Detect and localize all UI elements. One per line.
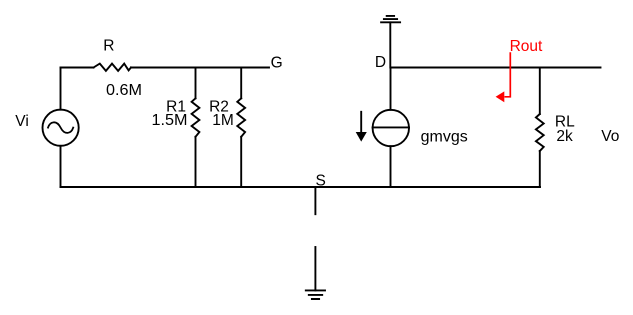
wire R1 top lead xyxy=(195,68,197,99)
wire R2 top lead xyxy=(240,68,242,99)
Rout probe arrowhead (red) xyxy=(496,91,505,102)
wire node S stub xyxy=(314,187,316,214)
wire top-left: source Vi top to node G xyxy=(61,67,270,69)
wire current source bottom lead xyxy=(390,146,392,187)
wire RL top lead xyxy=(539,68,541,115)
wire bottom ground lead xyxy=(314,247,316,290)
current source gmvgs circle xyxy=(373,110,409,146)
sine wave inside Vi xyxy=(48,122,73,133)
resistor R2 zigzag xyxy=(237,98,245,137)
wire Vi bottom lead xyxy=(60,146,62,187)
wire R1 bottom lead xyxy=(195,137,197,187)
svg-text:D: D xyxy=(375,54,386,71)
wire Vi top lead xyxy=(60,68,62,110)
svg-text:Rout: Rout xyxy=(510,38,543,55)
svg-text:G: G xyxy=(271,54,283,71)
ground top (inverted) lead xyxy=(389,22,391,67)
svg-text:1M: 1M xyxy=(212,112,234,129)
wire top-right: node D to right end xyxy=(391,67,601,69)
svg-text:Vo: Vo xyxy=(601,128,619,145)
wire RL bottom lead xyxy=(539,151,541,187)
resistor RL zigzag xyxy=(536,114,544,151)
Rout probe arrow (red) xyxy=(505,52,511,97)
voltage source Vi circle xyxy=(43,110,79,146)
svg-text:gmvgs: gmvgs xyxy=(421,129,468,146)
svg-text:0.6M: 0.6M xyxy=(106,82,142,99)
ground bottom bars xyxy=(306,290,325,299)
svg-text:2k: 2k xyxy=(556,128,573,145)
svg-text:Vi: Vi xyxy=(15,113,29,130)
current direction arrow shaft xyxy=(360,112,362,133)
resistor R zigzag xyxy=(94,64,132,71)
resistor R1 zigzag xyxy=(192,98,200,137)
current direction arrowhead xyxy=(356,132,367,142)
current source chord line xyxy=(373,126,409,128)
svg-text:R: R xyxy=(103,38,114,55)
wire R2 bottom lead xyxy=(240,137,242,187)
wire current source top lead xyxy=(390,68,392,110)
wire bottom rail xyxy=(61,186,541,188)
svg-text:1.5M: 1.5M xyxy=(152,112,188,129)
svg-text:S: S xyxy=(316,173,326,190)
ground top bars xyxy=(381,16,400,22)
